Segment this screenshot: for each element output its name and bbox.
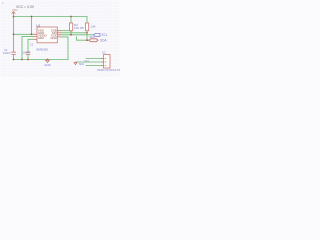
svg-text:SDO: SDO: [38, 36, 45, 40]
svg-text:C2: C2: [30, 43, 34, 47]
svg-text:SDA: SDA: [100, 39, 107, 43]
svg-text:10K: 10K: [74, 26, 79, 30]
svg-text:VCC = 3.3V: VCC = 3.3V: [16, 5, 35, 9]
svg-text:SCL: SCL: [84, 59, 90, 63]
svg-text:PESD-X2-5V0-8-T/R: PESD-X2-5V0-8-T/R: [97, 68, 120, 72]
svg-text:GND: GND: [50, 36, 56, 40]
svg-text:U1: U1: [36, 24, 40, 28]
svg-text:BME280: BME280: [37, 48, 49, 52]
svg-text:100nF: 100nF: [3, 51, 11, 55]
svg-text:SCL: SCL: [102, 33, 108, 37]
svg-text:VCC: VCC: [12, 8, 18, 12]
svg-text:R5: R5: [80, 26, 84, 30]
svg-text:U3: U3: [102, 51, 106, 55]
svg-text:10K: 10K: [91, 24, 96, 28]
svg-text:GND: GND: [44, 63, 50, 67]
svg-text:SDA: SDA: [89, 35, 95, 39]
svg-text:100nF: 100nF: [22, 51, 30, 55]
svg-text:SDA: SDA: [79, 62, 85, 66]
